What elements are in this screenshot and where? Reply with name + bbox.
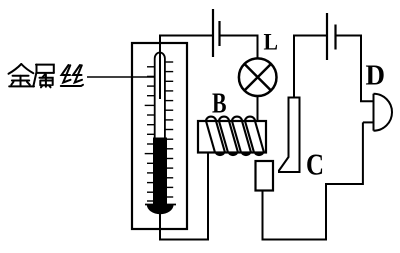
- thermometer container box: [132, 43, 187, 229]
- thermometer scale ticks right: [165, 62, 173, 197]
- wire battery B2 to bell D top terminal: [336, 36, 374, 102]
- 属: [36, 65, 54, 73]
- label pointer line (金属丝 callout): [87, 76, 155, 78]
- svg-text:L: L: [264, 30, 279, 56]
- svg-text:D: D: [366, 60, 386, 91]
- 丝: [62, 65, 71, 75]
- lamp L: [239, 58, 277, 96]
- thermometer bulb: [147, 205, 174, 215]
- svg-text:C: C: [306, 147, 324, 182]
- label 金属丝 (hand-drawn glyph strokes): [9, 64, 84, 87]
- wire contact C up to battery B2: [294, 36, 326, 98]
- wire battery B1 to lamp L: [220, 36, 258, 58]
- thermometer mercury column: [153, 138, 167, 205]
- 金: [9, 64, 22, 74]
- svg-text:B: B: [212, 89, 227, 120]
- thermometer scale ticks left: [145, 67, 155, 201]
- wire armature to bell D (bottom run): [263, 122, 363, 239]
- bell D: [363, 94, 392, 131]
- thermometer tube: [155, 53, 165, 203]
- contact C (spring reed): [279, 98, 300, 173]
- wire thermometer bottom to coil branch: [160, 213, 209, 240]
- wire top-left (battery B1 negative to thermometer lead corner): [160, 35, 213, 37]
- coil B windings: [206, 117, 264, 153]
- metal wire lead descending into thermometer tube: [159, 35, 161, 100]
- coil B core: [198, 121, 266, 153]
- battery B1: [213, 9, 220, 57]
- battery B2: [327, 13, 336, 60]
- wire coil B left end down to bottom wire: [207, 153, 209, 240]
- wire lamp L to coil B: [257, 96, 259, 121]
- armature (iron strip): [256, 161, 274, 191]
- bulb top line: [145, 204, 176, 206]
